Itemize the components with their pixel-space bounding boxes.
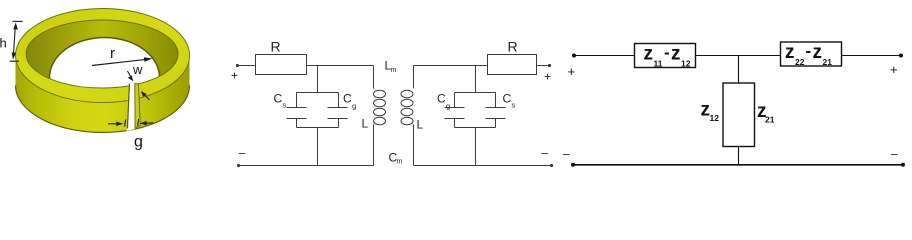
svg-text:+: + (568, 64, 576, 79)
ring outer side wall (16, 39, 190, 133)
svg-text:R: R (271, 39, 281, 55)
svg-text:+: + (890, 62, 898, 77)
node IN+ terminal dot (236, 64, 239, 67)
capacitor Cg right branch (338, 93, 340, 108)
wire cap bank to bottom rail (317, 128, 319, 166)
label r (radius arrow) (92, 57, 153, 65)
svg-text:z: z (671, 44, 681, 65)
inductor L1 coil (374, 90, 386, 98)
svg-text:g: g (134, 134, 143, 151)
ring inner wall (back) (26, 20, 178, 88)
svg-text:z: z (785, 42, 795, 63)
ring bottom edge outline (16, 86, 190, 133)
wire top node to cap bank feed (right) (475, 66, 477, 93)
left rail lower (413, 125, 415, 166)
label h (10, 21, 23, 61)
right resonator: left rail upper (413, 66, 415, 89)
svg-text:–: – (563, 147, 570, 161)
bottom wire two-port (572, 164, 904, 166)
svg-text:21: 21 (765, 115, 775, 125)
top wire right circuit (414, 65, 488, 67)
capacitor Cg2 left branch (454, 93, 456, 108)
svg-text:21: 21 (823, 57, 833, 67)
svg-text:12: 12 (681, 59, 691, 69)
svg-text:m: m (391, 67, 397, 74)
cap bank top bar (right) (455, 92, 496, 94)
svg-text:L: L (417, 118, 424, 132)
wire top node to cap bank feed (317, 66, 319, 93)
wire R1 to top node (307, 65, 374, 67)
right rail upper (to inductor L1) (373, 66, 375, 89)
node P1+ terminal dot (572, 54, 576, 58)
svg-text:g: g (446, 102, 450, 111)
node OUT+ terminal dot (548, 64, 551, 67)
svg-text:-: - (664, 43, 670, 62)
wire between series boxes (696, 55, 781, 57)
impedance box z22-z21 (781, 42, 842, 66)
inductor L2 coil (401, 90, 413, 98)
wire R2 to OUT+ (537, 65, 550, 67)
wire junction to shunt box (738, 56, 740, 84)
right rail lower (373, 125, 375, 166)
wire Z-series-2 to P2+ (842, 55, 902, 57)
node OUT- terminal dot (550, 164, 553, 167)
svg-text:12: 12 (710, 113, 720, 123)
resistor R1 box (256, 55, 307, 75)
bottom wire right circuit (414, 165, 552, 167)
svg-text:C: C (503, 92, 512, 106)
svg-text:g: g (352, 102, 356, 111)
node P1- terminal dot (571, 163, 575, 167)
svg-text:L: L (362, 117, 369, 131)
node P2+ terminal dot (899, 54, 903, 58)
svg-text:–: – (542, 146, 549, 160)
svg-text:-: - (806, 42, 812, 61)
capacitor Cs left branch (296, 93, 298, 108)
svg-text:–: – (239, 146, 246, 160)
svg-text:w: w (132, 62, 143, 77)
svg-text:z: z (644, 44, 654, 65)
svg-text:C: C (343, 92, 352, 106)
wire shunt box to bottom rail (738, 147, 740, 165)
wire in+ to R1 (238, 65, 256, 67)
svg-text:11: 11 (654, 59, 663, 69)
ring bore (hole) (50, 38, 160, 118)
resistor R2 box (488, 55, 537, 75)
gap left face edge (127, 84, 129, 129)
svg-text:C: C (274, 92, 283, 106)
wire cap bank to bottom rail (right) (475, 128, 477, 166)
svg-text:r: r (110, 45, 115, 62)
svg-text:s: s (283, 101, 287, 110)
label z11 - z12 (644, 43, 691, 69)
cap bank top bar (297, 92, 339, 94)
bottom wire left circuit (239, 165, 374, 167)
ring top face (16, 9, 190, 103)
svg-text:C: C (437, 92, 446, 106)
svg-text:m: m (397, 159, 403, 166)
svg-text:z: z (813, 42, 823, 63)
gap right face (135, 84, 141, 129)
svg-text:R: R (508, 39, 518, 55)
cap bank bottom bar (297, 127, 339, 129)
label z21 (shunt, right) (757, 101, 775, 125)
svg-text:h: h (0, 36, 7, 51)
label z12 (shunt, left) (701, 100, 720, 124)
capacitor Cs2 right branch (495, 93, 497, 108)
impedance box z11-z12 (635, 44, 696, 68)
svg-text:+: + (544, 70, 551, 84)
svg-text:22: 22 (795, 57, 805, 67)
svg-text:s: s (512, 101, 516, 110)
gap slit (127, 83, 136, 132)
impedance box z12/z21 shunt (723, 83, 755, 147)
cap bank bottom bar (right) (455, 127, 496, 129)
svg-text:+: + (231, 69, 238, 83)
node IN- terminal dot (237, 164, 240, 167)
wire P1+ to Z-series-1 (574, 55, 635, 57)
label g (gap arrows) (108, 119, 153, 127)
label z22 - z21 (785, 42, 832, 68)
svg-text:–: – (891, 147, 898, 161)
node P2- terminal dot (901, 163, 905, 167)
